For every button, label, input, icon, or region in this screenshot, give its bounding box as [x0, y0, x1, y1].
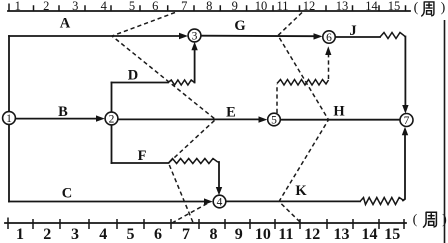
- dummy 5-6 riser (dashed): [276, 84, 278, 113]
- wire: J drop to node 7: [404, 37, 406, 106]
- svg-text:3: 3: [72, 0, 78, 13]
- svg-text:10: 10: [255, 0, 268, 13]
- svg-text:4: 4: [217, 197, 223, 209]
- svg-text:B: B: [58, 104, 68, 120]
- node 1: [3, 112, 16, 125]
- bottom unit label (zhou/week): [413, 212, 448, 227]
- svg-text:9: 9: [232, 0, 238, 13]
- node 3: [188, 29, 201, 42]
- node 5: [268, 113, 281, 126]
- svg-text:6: 6: [326, 32, 332, 44]
- wire: K riser up to node 7: [403, 134, 405, 201]
- J free float wavy line: [380, 33, 405, 39]
- activity A (1-3): [9, 35, 180, 37]
- activity K (4-7): [226, 200, 360, 202]
- svg-text:7: 7: [404, 115, 410, 127]
- svg-text:E: E: [226, 105, 236, 121]
- front line check week 6 (dashed): [112, 13, 216, 223]
- bottom ruler line: [5, 222, 406, 224]
- svg-text:1: 1: [15, 0, 21, 13]
- wire: F drop to node 4: [218, 162, 220, 188]
- svg-text:G: G: [234, 18, 245, 34]
- svg-text:9: 9: [235, 226, 243, 243]
- svg-text:H: H: [333, 104, 345, 120]
- svg-text:5: 5: [127, 226, 135, 243]
- K free float wavy line: [360, 198, 403, 205]
- svg-text:J: J: [349, 23, 356, 39]
- svg-text:15: 15: [388, 0, 401, 13]
- svg-text:C: C: [62, 186, 72, 202]
- svg-text:1: 1: [16, 226, 24, 243]
- svg-text:8: 8: [206, 0, 212, 13]
- svg-text:4: 4: [99, 226, 107, 243]
- svg-text:12: 12: [303, 0, 316, 13]
- node 4: [213, 195, 226, 208]
- svg-text:1: 1: [6, 113, 12, 125]
- activity C (1-4): [9, 201, 204, 203]
- svg-text:13: 13: [334, 226, 350, 243]
- dummy 5-6 arrow into node 6 (dashed): [328, 55, 330, 79]
- activity E (2-5): [118, 118, 259, 120]
- svg-text:F: F: [138, 148, 147, 164]
- svg-text:): ): [441, 1, 446, 16]
- svg-text:6: 6: [154, 226, 162, 243]
- svg-text:2: 2: [43, 226, 51, 243]
- svg-text:A: A: [60, 16, 71, 32]
- activity G (3-6): [200, 35, 314, 38]
- wire: riser node2 up to D row: [111, 83, 113, 113]
- svg-text:(: (: [413, 213, 418, 228]
- svg-text:2: 2: [109, 114, 115, 126]
- svg-text:10: 10: [255, 226, 271, 243]
- svg-text:8: 8: [210, 226, 218, 243]
- D free float wavy line: [168, 80, 195, 85]
- top ruler ticks: [9, 4, 406, 12]
- svg-text:3: 3: [192, 31, 198, 43]
- front line week 6 branch into node 4 (dashed): [172, 203, 209, 224]
- F free float wavy line: [169, 159, 220, 164]
- scan page-edge artifact right border: [444, 20, 446, 243]
- svg-text:(: (: [414, 1, 419, 16]
- svg-text:5: 5: [271, 115, 277, 127]
- svg-text:14: 14: [365, 0, 378, 13]
- svg-text:7: 7: [181, 0, 187, 13]
- svg-text:11: 11: [276, 0, 288, 13]
- svg-text:5: 5: [129, 0, 135, 13]
- svg-text:15: 15: [384, 226, 400, 243]
- svg-text:4: 4: [101, 0, 108, 13]
- activity B (1-2): [16, 118, 97, 120]
- wire: start risers from node 1: [8, 36, 10, 202]
- svg-text:D: D: [128, 68, 138, 84]
- wire: riser node2 down to F row: [111, 125, 113, 163]
- node 6: [323, 31, 335, 43]
- top ruler line: [8, 10, 410, 12]
- svg-text:3: 3: [71, 226, 79, 243]
- activity H (5-7): [280, 119, 400, 121]
- svg-text:12: 12: [304, 226, 320, 243]
- top unit label (zhou/week): [414, 1, 446, 16]
- svg-text:6: 6: [152, 0, 158, 13]
- svg-text:7: 7: [182, 226, 190, 243]
- activity D (2-3): [112, 82, 169, 84]
- svg-text:13: 13: [336, 0, 349, 13]
- front line check week 11 (dashed): [278, 13, 329, 223]
- activity J (6-7): [335, 36, 380, 38]
- svg-text:14: 14: [362, 226, 378, 243]
- wire: D riser up to node 3: [194, 50, 196, 83]
- node 7: [400, 114, 413, 127]
- svg-text:11: 11: [278, 226, 293, 243]
- svg-text:2: 2: [43, 0, 49, 13]
- bottom ruler ticks: [8, 218, 404, 230]
- node 2: [105, 112, 118, 125]
- bottom ruler week numbers 1-15: [16, 226, 400, 243]
- top ruler week numbers 1-15: [15, 0, 401, 13]
- activity F (2-4): [112, 162, 169, 164]
- svg-text:K: K: [295, 183, 307, 199]
- dummy 5-6 float wavy line: [277, 80, 329, 86]
